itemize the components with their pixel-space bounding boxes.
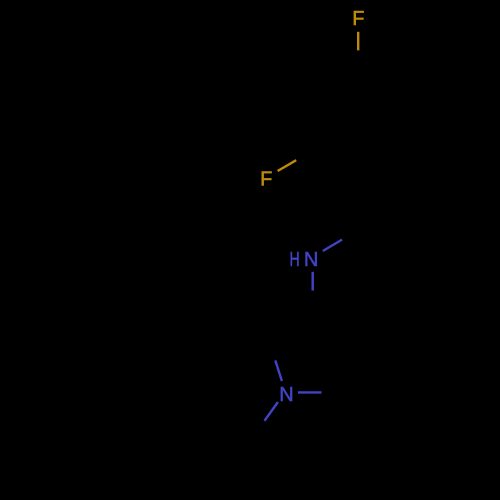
- svg-text:H: H: [290, 249, 300, 271]
- svg-text:N: N: [279, 384, 293, 406]
- svg-text:N: N: [304, 249, 318, 271]
- svg-text:F: F: [260, 168, 272, 190]
- svg-text:F: F: [352, 8, 364, 30]
